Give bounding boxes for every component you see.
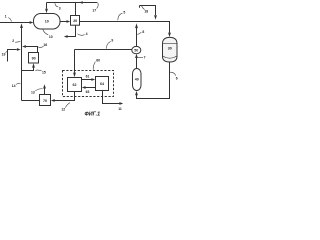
scrubber box 20	[71, 16, 80, 26]
leader for label 60	[93, 62, 95, 70]
svg-text:8: 8	[142, 30, 144, 34]
svg-text:6: 6	[176, 77, 178, 81]
wire: connector 61 from 62 to 64	[82, 79, 92, 81]
svg-text:14: 14	[12, 84, 16, 88]
svg-text:30: 30	[168, 47, 172, 51]
svg-text:4: 4	[86, 32, 88, 36]
arrowhead on header pointing left	[79, 1, 83, 4]
wire: vent 13 from box 70 top	[44, 88, 46, 94]
svg-text:5: 5	[123, 10, 125, 14]
box 64	[96, 77, 109, 91]
svg-text:61: 61	[86, 75, 90, 79]
svg-text:15: 15	[42, 71, 46, 75]
svg-text:1: 1	[5, 15, 7, 19]
column 40	[133, 69, 142, 91]
wire: line 11 out of box 64	[103, 91, 120, 104]
arrowhead up at junction with feed line	[20, 23, 23, 28]
tank 30	[163, 37, 178, 62]
leader for label 13	[35, 89, 42, 91]
svg-text:9: 9	[111, 39, 113, 43]
wire: line 15 from recycle line up into box 90	[22, 67, 34, 70]
svg-text:3: 3	[59, 6, 61, 10]
box 62	[68, 78, 82, 92]
leader for label 19	[5, 51, 7, 54]
leader for label 6	[170, 72, 176, 75]
leader for label 8	[137, 32, 141, 34]
wire: box 20 vent riser to top header	[75, 3, 77, 16]
vessel 10	[34, 14, 61, 30]
leader for label 16	[38, 46, 43, 47]
svg-text:10: 10	[45, 20, 49, 24]
leader for label 3	[55, 3, 58, 7]
svg-text:16: 16	[43, 43, 47, 47]
leader for label 15	[35, 69, 41, 72]
tank 30 dished bottom line	[163, 56, 177, 58]
svg-text:18: 18	[144, 9, 148, 13]
wire: recycle line 2 rising into feed line	[21, 27, 23, 100]
wire: line 4 blowdown from box 20 bottom	[67, 25, 76, 36]
leader for label 18	[142, 6, 145, 10]
wire: line 3 into top of vessel 10	[46, 3, 48, 9]
wire: long line 5 from box 20 to tank 30	[80, 22, 170, 33]
wire: line 9 from pump 50 to unit 60	[75, 49, 132, 51]
svg-text:40: 40	[135, 77, 139, 81]
pump 50	[132, 46, 141, 53]
svg-text:60: 60	[96, 58, 100, 62]
wire: line 12 from box 62 to box 70	[54, 92, 74, 101]
tank 30 weld line	[163, 43, 178, 45]
svg-text:70: 70	[43, 99, 47, 103]
svg-text:10: 10	[49, 35, 53, 39]
wire: line 8 from pump 50 up to line 5	[136, 27, 138, 46]
svg-text:63: 63	[86, 90, 90, 94]
svg-text:90: 90	[32, 56, 36, 60]
wire: connector 63 from 64 to 62	[85, 87, 95, 89]
wire: feed line 1	[0, 22, 30, 24]
svg-text:12: 12	[61, 107, 65, 111]
leader for label 12	[65, 103, 70, 108]
leader for label 2	[15, 41, 20, 44]
leader for label 7	[138, 57, 143, 59]
wire: line 18 inlet joining line 5	[140, 6, 156, 16]
leader for label 1	[8, 18, 11, 22]
svg-text:7: 7	[144, 56, 146, 60]
leader for label 9	[106, 41, 111, 48]
wire: line 6 from tank 30 bottom to column 40 bottom	[137, 62, 170, 99]
leader for label 17	[97, 2, 99, 8]
svg-text:50: 50	[134, 49, 138, 53]
wire: line 7 from column 40 up into pump 50	[136, 58, 138, 69]
svg-text:19: 19	[2, 52, 6, 56]
svg-text:17: 17	[92, 9, 96, 13]
wire: top header line	[47, 2, 98, 4]
leader for label 4	[78, 34, 85, 36]
dashed unit 60 boundary	[63, 71, 114, 97]
svg-text:11: 11	[118, 107, 122, 111]
svg-text:64: 64	[100, 82, 104, 86]
svg-text:62: 62	[73, 83, 77, 87]
svg-text:20: 20	[73, 19, 77, 23]
leader for label 5	[118, 13, 123, 20]
wire: line 19 inlet	[8, 50, 17, 62]
svg-text:2: 2	[12, 39, 14, 43]
svg-text:13: 13	[31, 91, 35, 95]
box 70	[40, 95, 51, 106]
wire: line 16 from box 90 top back to recycle line	[26, 47, 38, 53]
box 90	[29, 53, 39, 64]
svg-text:ФИГ.1: ФИГ.1	[85, 111, 101, 117]
wire: box 70 left outlet to recycle line	[22, 100, 40, 102]
arrowhead into vessel 10	[30, 21, 34, 24]
wire: vessel 10 outlet to scrubber 20	[60, 21, 67, 23]
leader for label 14	[16, 83, 20, 84]
